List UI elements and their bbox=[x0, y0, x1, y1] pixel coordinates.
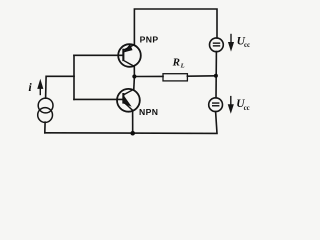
svg-text:cc: cc bbox=[244, 42, 250, 49]
svg-text:PNP: PNP bbox=[140, 34, 159, 44]
svg-text:R: R bbox=[172, 56, 180, 68]
svg-text:NPN: NPN bbox=[139, 107, 158, 117]
svg-text:cc: cc bbox=[244, 105, 250, 112]
svg-text:L: L bbox=[180, 63, 185, 70]
